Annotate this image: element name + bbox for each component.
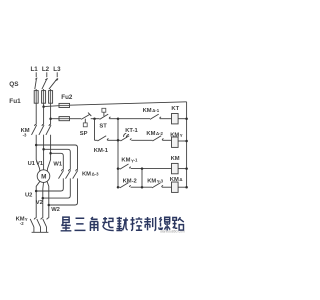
caption title: xian (wire) xyxy=(159,217,170,230)
wire phase C above fuse xyxy=(50,89,52,91)
contactor coil KM xyxy=(172,163,179,173)
watermark xyxy=(160,230,185,234)
label W1 xyxy=(53,161,62,167)
junction rail row3 xyxy=(185,167,188,170)
contact KM-Y-1 xyxy=(118,164,131,169)
contactor KM-delta pole 1 xyxy=(59,169,64,178)
label KM coil xyxy=(171,156,180,162)
junction W2 xyxy=(48,204,51,207)
label KM-Y-2 xyxy=(16,216,28,226)
wire delta tap C to KM-delta pole 1 xyxy=(51,153,64,169)
svg-text:Fu1: Fu1 xyxy=(9,98,21,105)
contactor KM-Y pole 1 xyxy=(30,218,36,232)
wire KM-delta-2 to KM-Y coil xyxy=(162,139,171,141)
contact KM-delta-1 xyxy=(150,114,161,119)
wire KM-delta pole 3 to W2 xyxy=(49,178,78,205)
label KM-Y-3 xyxy=(147,178,163,184)
svg-text:KM-2: KM-2 xyxy=(123,178,137,184)
label KT xyxy=(171,106,179,112)
svg-text:KM: KM xyxy=(170,177,179,183)
svg-text:W2: W2 xyxy=(51,207,60,213)
label U2 xyxy=(25,193,32,199)
caption title: jiao (angle) xyxy=(90,217,97,231)
wire L2 terminal stub xyxy=(46,72,48,77)
label Fu1 xyxy=(9,98,21,105)
fuse Fu2 upper xyxy=(59,103,70,107)
wire motor U2 lead xyxy=(36,181,40,218)
wire phase A KM to motor U1 xyxy=(36,135,40,171)
wire phase B above fuse xyxy=(43,89,45,91)
junction control tap phase C xyxy=(49,117,52,120)
pushbutton ST xyxy=(100,108,111,119)
junction bus row3 xyxy=(117,167,120,170)
caption title: zhi (system) xyxy=(144,217,155,230)
caption title: xing (star) xyxy=(61,217,72,231)
wire star point bar xyxy=(32,231,49,233)
label KM-2 xyxy=(123,178,137,184)
wire KM-2 to KM-Y-3 xyxy=(131,186,152,188)
svg-text:dianlutu860.com: dianlutu860.com xyxy=(160,230,185,234)
junction rail row1 xyxy=(185,117,188,120)
wire KM-delta-1 to KT coil xyxy=(160,118,172,120)
contactor KM-Y pole 3 xyxy=(43,218,49,232)
wire KM-1 branch left drop xyxy=(94,119,96,141)
junction bus row2 xyxy=(117,139,120,142)
label KM-Y-1 xyxy=(121,158,138,164)
junction SP-ST node xyxy=(93,117,96,120)
junction row3 parallel node xyxy=(141,167,144,170)
contactor KM-3 pole 1 xyxy=(32,124,37,135)
junction delta tap phase B xyxy=(42,148,45,151)
motor M1 xyxy=(37,170,50,183)
label KT-1 xyxy=(125,128,138,134)
svg-text:-3: -3 xyxy=(159,178,163,183)
wire delta tap A to KM-delta pole 3 xyxy=(36,145,77,170)
wire phase A fuse to KM xyxy=(35,103,37,124)
svg-text:L1: L1 xyxy=(31,66,39,73)
switch QS pole 1 xyxy=(35,78,37,89)
wire right rail xyxy=(186,102,188,187)
fuse Fu2 lower xyxy=(59,117,70,121)
wire bus vertical xyxy=(117,119,119,188)
wire KM-1 branch line xyxy=(95,139,98,141)
wire KT coil to right rail xyxy=(178,118,187,120)
caption title: lu (road) xyxy=(173,217,184,230)
label V2 xyxy=(36,200,43,206)
contactor KM-delta pole 2 xyxy=(66,169,71,178)
fuse Fu1 pole 1 xyxy=(34,91,38,104)
label SP xyxy=(80,131,88,137)
fuse Fu1 pole 3 xyxy=(49,91,53,104)
svg-text:V2: V2 xyxy=(36,200,43,206)
node L1 xyxy=(31,66,39,73)
wire KM-Y coil to rail xyxy=(178,140,187,142)
switch QS pole 2 xyxy=(42,78,48,89)
svg-text:QS: QS xyxy=(9,81,19,88)
svg-text:W1: W1 xyxy=(53,161,62,167)
wire KM-delta coil to rail xyxy=(178,186,187,188)
svg-text:KT-1: KT-1 xyxy=(125,128,138,134)
label ST xyxy=(99,123,107,129)
junction row4 parallel node xyxy=(141,186,144,189)
wire KT-1 to KM-delta-2 xyxy=(131,139,152,141)
wire KM-delta pole 2 to V2 xyxy=(43,178,71,198)
wire control rail top to right corner xyxy=(70,102,187,105)
node L2 xyxy=(42,66,50,73)
svg-text:KT: KT xyxy=(171,106,179,112)
label KM-delta-1 xyxy=(143,108,160,114)
junction bus top xyxy=(117,117,120,120)
wire delta tap B to KM-delta pole 2 xyxy=(44,149,71,169)
svg-text:-2: -2 xyxy=(20,221,24,226)
svg-text:L2: L2 xyxy=(42,66,50,73)
svg-text:L3: L3 xyxy=(53,66,61,73)
svg-text:Δ-2: Δ-2 xyxy=(156,131,164,136)
wire motor W2 lead xyxy=(47,181,49,218)
label V1 xyxy=(36,161,44,167)
wire phase C KM to motor W1 xyxy=(47,135,50,171)
svg-text:SP: SP xyxy=(80,131,88,137)
svg-text:KM: KM xyxy=(147,178,156,184)
svg-text:KM: KM xyxy=(171,156,180,162)
label U1 xyxy=(28,161,36,167)
wire ST to bus xyxy=(109,118,118,120)
wire row1 bus to KM-delta-1 xyxy=(118,118,150,120)
svg-text:KM-1: KM-1 xyxy=(94,148,109,154)
contact KM-Y-3 xyxy=(152,183,163,188)
contactor KM-3 pole 3 xyxy=(46,124,51,135)
svg-text:U2: U2 xyxy=(25,193,32,199)
contact KM-delta-2 xyxy=(153,136,164,141)
junction bus row4 xyxy=(117,186,120,189)
wire KM-Y-3 to KM-delta coil xyxy=(162,186,172,188)
label KM-1 xyxy=(94,148,109,154)
node L3 xyxy=(53,66,61,73)
wire control rail top from phase B xyxy=(44,105,59,108)
wire phase B KM to motor V1 xyxy=(43,135,45,170)
wire KM-1 to bus row2 xyxy=(107,139,120,141)
wire KM-Y-1 to KM coil xyxy=(131,168,172,170)
wire phase A above fuse xyxy=(35,89,37,91)
svg-text:V1: V1 xyxy=(36,161,44,167)
wire KM coil to rail xyxy=(178,168,187,170)
contactor KM-delta pole 3 xyxy=(73,169,78,178)
junction delta tap phase C xyxy=(49,152,52,155)
svg-text:U1: U1 xyxy=(28,161,36,167)
wire motor V2 lead xyxy=(42,182,45,218)
junction U2 xyxy=(35,190,38,193)
contactor coil KM-delta xyxy=(172,182,179,192)
wire control line 2 from phase C xyxy=(51,118,59,120)
caption title: san (three) xyxy=(75,218,86,230)
svg-text:Y: Y xyxy=(25,217,28,222)
label QS xyxy=(9,81,19,88)
contact KM-2 xyxy=(118,183,131,188)
label KM-delta-2 xyxy=(146,131,163,137)
svg-text:KM: KM xyxy=(121,158,130,164)
wire phase B fuse to KM xyxy=(43,103,45,124)
label KM-delta-3 xyxy=(82,172,99,178)
label W2 xyxy=(51,207,60,213)
label KM-3 xyxy=(21,128,30,137)
wire KM-delta pole 1 to U2 xyxy=(36,178,63,191)
wire parallel link row3 row4 xyxy=(141,169,143,188)
switch QS pole 3 xyxy=(49,78,58,89)
fuse Fu1 pole 2 xyxy=(42,91,46,104)
svg-text:KM: KM xyxy=(146,131,155,137)
caption title: kong (control) xyxy=(130,217,142,230)
svg-text:Δ: Δ xyxy=(179,177,182,182)
contactor KM-3 pole 2 xyxy=(39,124,44,135)
contact KM-1 xyxy=(98,136,109,141)
svg-text:ST: ST xyxy=(99,123,107,129)
junction control tap phase B xyxy=(42,105,45,108)
svg-text:KM: KM xyxy=(170,132,179,138)
caption title: dong (move) xyxy=(116,217,128,231)
wire L3 terminal stub xyxy=(56,72,58,77)
junction delta tap phase A xyxy=(35,144,38,147)
contact KT-1 timed xyxy=(121,133,132,141)
relay coil KT xyxy=(172,114,179,124)
junction rail row2 xyxy=(185,140,188,143)
svg-text:Δ-3: Δ-3 xyxy=(92,172,100,177)
svg-text:KM: KM xyxy=(82,172,91,178)
label KM-delta coil xyxy=(170,177,183,183)
svg-text:Fu2: Fu2 xyxy=(61,94,73,101)
svg-text:Y: Y xyxy=(180,133,183,138)
svg-text:KM: KM xyxy=(143,108,152,114)
contactor KM-Y pole 2 xyxy=(37,218,43,232)
svg-text:-1: -1 xyxy=(134,158,138,163)
junction rail row4 xyxy=(185,186,188,189)
svg-text:Δ-1: Δ-1 xyxy=(152,108,160,113)
wire Fu2 lower to SP xyxy=(70,118,82,120)
contactor coil KM-Y xyxy=(172,137,179,147)
junction V2 xyxy=(42,197,45,200)
pushbutton SP xyxy=(81,113,91,127)
label Fu2 xyxy=(61,94,73,101)
caption title: qi (rise) xyxy=(102,217,113,230)
wire L1 terminal stub xyxy=(35,72,37,77)
label KM-Y coil xyxy=(170,132,183,138)
svg-text:-3: -3 xyxy=(23,132,27,137)
svg-text:M: M xyxy=(41,173,46,180)
wire phase C fuse to KM xyxy=(50,103,52,124)
wire SP to ST xyxy=(91,118,100,120)
